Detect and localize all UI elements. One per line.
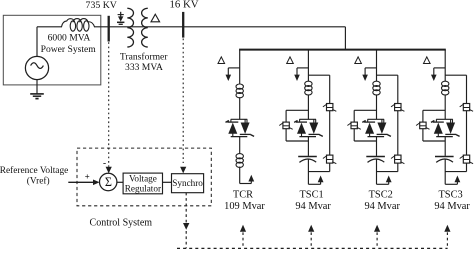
svg-text:94 Mvar: 94 Mvar — [434, 201, 470, 212]
svg-text:(Vref): (Vref) — [27, 176, 50, 187]
svg-text:6000 MVA: 6000 MVA — [48, 33, 91, 44]
svg-text:333 MVA: 333 MVA — [125, 62, 163, 73]
svg-text:735 KV: 735 KV — [86, 0, 117, 11]
svg-text:Transformer: Transformer — [120, 52, 168, 63]
svg-text:Voltage: Voltage — [129, 174, 157, 184]
svg-text:Power System: Power System — [41, 44, 97, 55]
svg-text:16 KV: 16 KV — [169, 0, 198, 11]
svg-text:TSC3: TSC3 — [438, 189, 462, 200]
svg-text:94 Mvar: 94 Mvar — [295, 201, 331, 212]
svg-text:109 Mvar: 109 Mvar — [224, 201, 265, 212]
svg-text:-: - — [103, 159, 106, 170]
svg-text:Regulator: Regulator — [125, 183, 161, 193]
svg-text:TSC1: TSC1 — [299, 189, 323, 200]
svg-text:Synchro: Synchro — [172, 178, 203, 188]
svg-text:+: + — [85, 171, 90, 181]
svg-text:Control System: Control System — [90, 217, 153, 228]
svg-text:Σ: Σ — [105, 175, 112, 189]
svg-text:Reference Voltage: Reference Voltage — [0, 165, 68, 176]
svg-text:TCR: TCR — [233, 189, 253, 200]
svg-text:TSC2: TSC2 — [369, 189, 393, 200]
svg-text:94 Mvar: 94 Mvar — [364, 201, 400, 212]
